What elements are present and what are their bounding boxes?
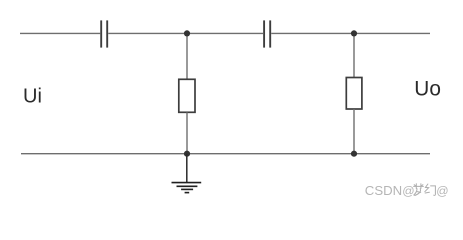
svg-text:CSDN: CSDN [365,183,402,198]
wire R2 lower lead [353,109,355,154]
watermark glyph 幻 (hand drawn) [425,184,436,195]
wire bottom rail [21,153,430,155]
svg-text:@: @ [402,184,414,198]
capacitor C1 [101,20,107,47]
svg-text:Ui: Ui [23,86,42,108]
node junction top R1 [184,30,190,36]
wire R1 lower lead [186,112,188,153]
svg-text:@: @ [436,184,448,198]
svg-text:Uo: Uo [414,78,441,101]
watermark glyph 梦 (hand drawn) [414,184,424,196]
wire top-left segment [20,32,100,34]
wire R2 upper lead [353,33,355,77]
wire top-middle segment [108,32,263,34]
wire ground stub [186,154,188,183]
node junction bottom R1/ground [184,151,190,157]
resistor R2 [346,78,362,110]
node junction top R2 [351,30,357,36]
capacitor C2 [264,20,270,47]
resistor R1 [179,79,195,112]
ground [172,183,202,193]
watermark CSDN @梦幻@ [365,183,449,198]
wire top-right segment [271,32,430,34]
node junction bottom R2 [351,151,357,157]
wire R1 upper lead [186,33,188,79]
